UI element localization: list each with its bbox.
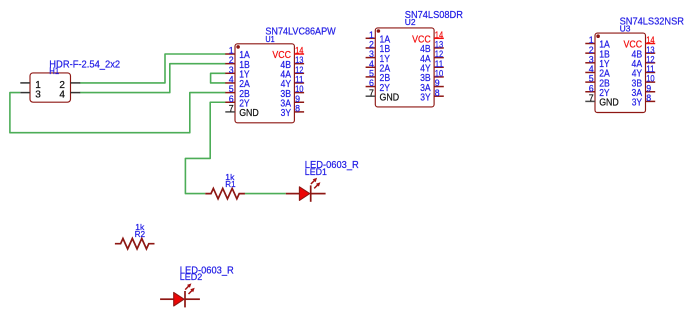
U1 pin 5 (2B) stub xyxy=(225,92,235,94)
svg-text:9: 9 xyxy=(295,94,300,104)
U3 pin-1 marker dot xyxy=(596,34,600,38)
svg-text:3Y: 3Y xyxy=(420,92,431,103)
svg-text:11: 11 xyxy=(295,75,303,85)
U1 pin 6 (2Y) stub xyxy=(225,101,235,103)
U3 pin 3 (1Y) stub xyxy=(585,62,595,64)
U1 pin 3 (1Y) stub xyxy=(225,72,235,74)
U2 pin 6 (2Y) stub xyxy=(366,86,376,88)
svg-text:5: 5 xyxy=(589,74,594,84)
svg-text:3Y: 3Y xyxy=(632,98,643,109)
U2 pin-1 marker dot xyxy=(377,29,381,33)
U2 pin 12 (4A) stub xyxy=(434,57,444,59)
LED2 triangle xyxy=(174,292,184,306)
IC U1 SN74LVC86APW xyxy=(225,27,336,123)
svg-text:LED2: LED2 xyxy=(180,272,203,282)
LED2 light arrow 1 xyxy=(185,283,191,289)
svg-text:7: 7 xyxy=(589,93,594,103)
svg-text:6: 6 xyxy=(229,94,234,104)
U3 body xyxy=(595,33,646,112)
svg-text:3: 3 xyxy=(229,65,234,75)
svg-text:6: 6 xyxy=(369,78,374,88)
wire net R1.2 to LED1 anode xyxy=(245,193,286,195)
svg-text:2: 2 xyxy=(229,55,234,65)
U3 pin 13 (4B) stub xyxy=(646,52,656,54)
svg-text:3: 3 xyxy=(35,90,41,101)
U3 pin 1 (1A) stub xyxy=(585,43,595,45)
wire net U1.6 to R1.1 xyxy=(185,102,225,193)
svg-text:6: 6 xyxy=(589,83,594,93)
wire net H1.3 to U1.5 xyxy=(10,93,226,133)
U2 pin 10 (3B) stub xyxy=(434,76,444,78)
svg-text:8: 8 xyxy=(295,104,300,114)
H1 body xyxy=(30,73,71,102)
svg-text:3Y: 3Y xyxy=(281,108,292,119)
U3 pin 4 (2A) stub xyxy=(585,71,595,73)
U2 pin 1 (1A) stub xyxy=(366,37,376,39)
svg-text:2: 2 xyxy=(369,40,374,50)
svg-text:12: 12 xyxy=(435,49,443,59)
LED2 light arrow 2 xyxy=(189,288,195,294)
svg-text:11: 11 xyxy=(646,64,654,74)
svg-text:5: 5 xyxy=(369,69,374,79)
IC U2 SN74LS08DR xyxy=(366,10,463,107)
svg-text:14: 14 xyxy=(295,46,303,56)
svg-text:GND: GND xyxy=(599,98,619,109)
svg-text:4: 4 xyxy=(59,90,65,101)
LED1 light arrow 1 xyxy=(311,178,317,184)
H1 pin 1 stub xyxy=(20,82,30,84)
svg-text:5: 5 xyxy=(229,84,234,94)
svg-text:GND: GND xyxy=(380,92,400,103)
svg-text:8: 8 xyxy=(435,88,440,98)
svg-text:HDR-F-2.54_2x2: HDR-F-2.54_2x2 xyxy=(49,60,120,71)
LED1 cathode bar xyxy=(310,185,312,201)
LED1 anode lead xyxy=(286,193,300,195)
wire net H1.2 to U1.1 xyxy=(80,54,226,83)
U1 pin 8 (3Y) stub xyxy=(294,111,304,113)
U3 pin 10 (3B) stub xyxy=(646,81,656,83)
LED1 cathode lead xyxy=(311,193,326,195)
svg-text:U3: U3 xyxy=(620,23,631,33)
svg-text:2: 2 xyxy=(589,45,594,55)
wire net U1.3 to U1.4 xyxy=(211,73,226,83)
svg-text:GND: GND xyxy=(239,108,259,119)
svg-text:1: 1 xyxy=(229,46,234,56)
U1 pin 1 (1A) stub xyxy=(225,53,235,55)
svg-text:1: 1 xyxy=(369,30,374,40)
resistor R2 xyxy=(115,222,155,249)
U1 body xyxy=(235,44,294,123)
U3 pin 5 (2B) stub xyxy=(585,81,595,83)
U2 pin 13 (4B) stub xyxy=(434,47,444,49)
svg-text:9: 9 xyxy=(646,83,651,93)
U2 pin 4 (2A) stub xyxy=(366,66,376,68)
R2 zigzag body xyxy=(115,239,155,249)
svg-text:LED1: LED1 xyxy=(305,167,327,177)
U1 pin 13 (4B) stub xyxy=(294,63,304,65)
LED2 anode lead xyxy=(160,298,174,300)
U3 pin 12 (4A) stub xyxy=(646,62,656,64)
svg-text:13: 13 xyxy=(295,55,303,65)
LED2 cathode lead xyxy=(185,298,200,300)
svg-text:SN74LVC86APW: SN74LVC86APW xyxy=(265,27,336,38)
U2 pin 14 (VCC) stub xyxy=(434,37,444,39)
U1 pin 14 (VCC) stub xyxy=(294,53,304,55)
U1 pin 4 (2A) stub xyxy=(225,82,235,84)
H1 pin 2 stub xyxy=(71,82,81,84)
svg-text:10: 10 xyxy=(646,74,654,84)
LED1 light arrow 2 xyxy=(314,182,320,188)
svg-text:4: 4 xyxy=(589,64,594,74)
U2 pin 9 (3A) stub xyxy=(434,86,444,88)
H1 pin 4 stub xyxy=(71,92,81,94)
svg-text:1: 1 xyxy=(589,35,594,45)
svg-text:7: 7 xyxy=(369,88,374,98)
U2 pin 3 (1Y) stub xyxy=(366,57,376,59)
svg-text:10: 10 xyxy=(295,84,303,94)
svg-text:9: 9 xyxy=(435,78,440,88)
U2 pin 2 (1B) stub xyxy=(366,47,376,49)
svg-text:12: 12 xyxy=(295,65,303,75)
IC U3 SN74LS32NSR xyxy=(585,16,684,112)
svg-text:U2: U2 xyxy=(405,17,416,27)
svg-text:R1: R1 xyxy=(225,179,235,189)
LED1 triangle xyxy=(299,187,309,201)
U3 pin 9 (3A) stub xyxy=(646,91,656,93)
svg-text:10: 10 xyxy=(435,69,443,79)
svg-text:14: 14 xyxy=(435,30,443,40)
U3 pin 8 (3Y) stub xyxy=(646,100,656,102)
LED LED2 xyxy=(160,265,234,307)
U1 pin-1 marker dot xyxy=(236,45,240,49)
U3 pin 14 (VCC) stub xyxy=(646,43,656,45)
U2 pin 5 (2B) stub xyxy=(366,76,376,78)
U2 pin 7 (GND) stub xyxy=(366,95,376,97)
U1 pin 9 (3A) stub xyxy=(294,101,304,103)
LED2 cathode bar xyxy=(184,291,186,307)
svg-text:11: 11 xyxy=(435,59,443,69)
svg-text:14: 14 xyxy=(646,35,654,45)
wire net H1.4 to U1.2 xyxy=(80,64,226,93)
svg-text:3: 3 xyxy=(369,49,374,59)
svg-text:4: 4 xyxy=(369,59,374,69)
U3 pin 2 (1B) stub xyxy=(585,52,595,54)
U1 pin 12 (4A) stub xyxy=(294,72,304,74)
U1 pin 11 (4Y) stub xyxy=(294,82,304,84)
svg-text:R2: R2 xyxy=(135,229,146,239)
R1 zigzag body xyxy=(205,188,245,198)
H1 pin 3 stub xyxy=(20,92,30,94)
svg-text:8: 8 xyxy=(646,93,651,103)
svg-text:12: 12 xyxy=(646,54,654,64)
U2 pin 11 (4Y) stub xyxy=(434,66,444,68)
svg-text:4: 4 xyxy=(229,75,234,85)
U2 pin 8 (3Y) stub xyxy=(434,95,444,97)
U3 pin 6 (2Y) stub xyxy=(585,91,595,93)
LED LED1 xyxy=(286,160,359,202)
U1 pin 10 (3B) stub xyxy=(294,92,304,94)
U3 pin 7 (GND) stub xyxy=(585,100,595,102)
svg-text:H1: H1 xyxy=(49,66,59,76)
svg-text:7: 7 xyxy=(229,104,234,114)
U1 pin 2 (1B) stub xyxy=(225,63,235,65)
svg-text:13: 13 xyxy=(435,40,443,50)
svg-text:13: 13 xyxy=(646,45,654,55)
U1 pin 7 (GND) stub xyxy=(225,111,235,113)
svg-text:3: 3 xyxy=(589,54,594,64)
U2 body xyxy=(375,28,434,107)
resistor R1 xyxy=(205,172,245,199)
svg-text:U1: U1 xyxy=(265,34,274,44)
connector H1 HDR-F-2.54_2x2 xyxy=(20,60,120,103)
U3 pin 11 (4Y) stub xyxy=(646,71,656,73)
